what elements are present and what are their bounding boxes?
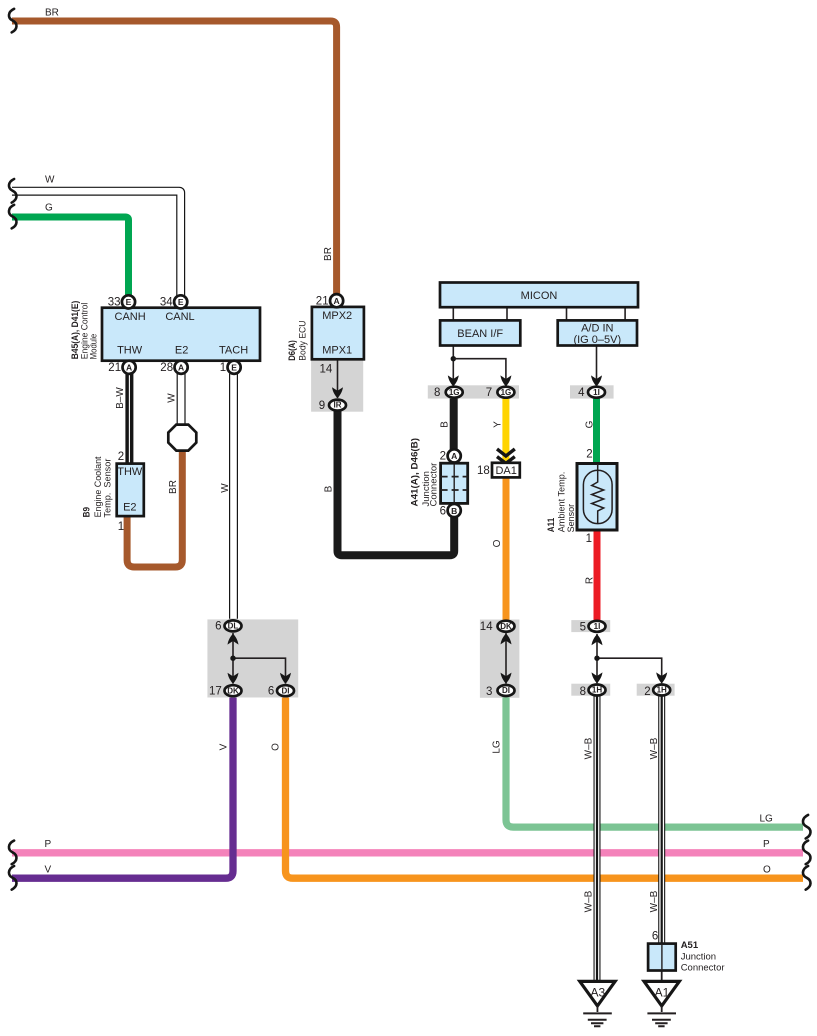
svg-text:A1: A1 bbox=[655, 985, 670, 999]
pin 8(1H) oval bbox=[589, 685, 606, 696]
svg-text:IR: IR bbox=[334, 401, 342, 410]
svg-text:34: 34 bbox=[160, 297, 173, 309]
svg-text:W: W bbox=[45, 174, 55, 185]
shade band pin 8 (1H) bbox=[571, 684, 610, 696]
wire P horizontal bbox=[12, 849, 803, 856]
thermistor capsule inside A11 bbox=[583, 470, 612, 523]
svg-text:W–B: W–B bbox=[583, 737, 594, 759]
junction connector A41 center line bbox=[453, 463, 455, 503]
svg-text:W–B: W–B bbox=[583, 890, 594, 912]
svg-text:1I: 1I bbox=[594, 622, 601, 631]
wire branch to pin 7(1G) bbox=[453, 359, 506, 386]
wire W from pin 28(A): white core bbox=[178, 374, 185, 425]
svg-text:BR: BR bbox=[323, 247, 334, 261]
svg-text:G: G bbox=[45, 202, 53, 213]
svg-text:6: 6 bbox=[652, 931, 658, 943]
pin 2(A) junction connector bbox=[448, 449, 461, 462]
wire W-B left: white core bbox=[595, 697, 600, 983]
svg-text:P: P bbox=[45, 839, 52, 850]
svg-text:Y: Y bbox=[493, 421, 504, 428]
svg-text:O: O bbox=[763, 865, 771, 876]
ground triangle A1 bbox=[644, 981, 679, 1006]
wire B-W white stripe bbox=[128, 374, 130, 464]
shade block DK/DI right bbox=[480, 620, 520, 698]
break squiggle LG right bbox=[803, 815, 811, 839]
svg-text:A: A bbox=[334, 296, 340, 306]
svg-text:6: 6 bbox=[215, 621, 221, 633]
chevron arrows on Y wire into DA1 bbox=[497, 449, 515, 463]
pin 14(DK) oval bbox=[498, 621, 515, 632]
wire LG from pin 3(DI) to right edge bbox=[506, 697, 803, 827]
link MICON to A/D IN left bbox=[566, 307, 568, 321]
box A/D IN (IG 0-5V) bbox=[558, 320, 637, 345]
svg-text:O: O bbox=[271, 743, 282, 751]
svg-text:5: 5 bbox=[580, 622, 586, 634]
svg-text:2: 2 bbox=[644, 686, 650, 698]
box BEAN I/F bbox=[440, 320, 520, 345]
ground A1 bars bbox=[647, 1013, 676, 1026]
wire W-B left: black stripe bbox=[596, 697, 598, 983]
svg-text:DI: DI bbox=[502, 686, 510, 695]
svg-text:THW: THW bbox=[117, 466, 143, 478]
wire W to CANL pin 34(E): outer black bbox=[12, 191, 181, 296]
wire W from pin 28(A) to noise filter: outer black bbox=[177, 374, 186, 425]
svg-text:R: R bbox=[585, 577, 596, 584]
arrow up into 6(DL) bbox=[228, 634, 239, 645]
svg-text:6: 6 bbox=[268, 686, 274, 698]
A51 center divider bbox=[661, 944, 663, 971]
wire B from pin 8(1G) to junction connector 2(A) bbox=[450, 399, 458, 450]
svg-text:DK: DK bbox=[500, 622, 512, 631]
svg-text:DL: DL bbox=[228, 622, 239, 631]
link MICON to A/D IN right bbox=[624, 307, 626, 321]
arrow into 6(DI) bbox=[280, 673, 291, 684]
svg-text:D6(A): D6(A) bbox=[287, 340, 298, 361]
wire W-B right: black stripe bbox=[661, 697, 663, 945]
shade band for pin 4 (1I) bbox=[570, 385, 614, 398]
svg-text:A: A bbox=[126, 363, 132, 373]
svg-text:CANL: CANL bbox=[165, 311, 194, 323]
link MICON to BEAN I/F left bbox=[452, 307, 454, 321]
svg-text:MICON: MICON bbox=[521, 290, 558, 302]
svg-text:B: B bbox=[451, 506, 457, 516]
shade band pin 5 (1I) bbox=[571, 620, 610, 632]
svg-text:18: 18 bbox=[477, 465, 490, 477]
svg-text:LG: LG bbox=[760, 813, 774, 824]
box A11 Ambient Temp. Sensor bbox=[577, 464, 617, 531]
arrow into 2(1H) bbox=[656, 672, 667, 683]
svg-text:2: 2 bbox=[440, 451, 446, 463]
pin 28(A) E2 bbox=[175, 361, 188, 374]
pin 21(A) MPX2 bbox=[330, 294, 343, 307]
svg-text:W: W bbox=[220, 483, 231, 493]
svg-text:1: 1 bbox=[220, 362, 226, 374]
svg-text:DI: DI bbox=[282, 686, 290, 695]
thermistor lead and zigzag bbox=[592, 464, 604, 524]
svg-text:A41(A), D46(B): A41(A), D46(B) bbox=[409, 438, 420, 507]
wire R from ambient temp sensor pin 1 to pin 5(1I) bbox=[594, 530, 601, 621]
junction connector A41(A),D46(B) grid box bbox=[441, 463, 468, 503]
svg-text:6: 6 bbox=[440, 505, 446, 517]
svg-text:E: E bbox=[231, 363, 237, 373]
svg-text:Body ECU: Body ECU bbox=[298, 320, 309, 360]
svg-text:Connector: Connector bbox=[428, 463, 439, 507]
arrow into 17(DK) bbox=[228, 673, 239, 684]
wire G from pin 4(1I) to ambient temp sensor pin 2 bbox=[593, 399, 600, 464]
ground A3 stem bbox=[596, 1006, 598, 1012]
svg-text:Sensor: Sensor bbox=[566, 504, 577, 533]
svg-text:E: E bbox=[178, 297, 184, 307]
link MICON to BEAN I/F right bbox=[506, 307, 508, 321]
svg-text:21: 21 bbox=[108, 362, 121, 374]
pin 34(E) CANL bbox=[174, 295, 187, 308]
svg-text:1G: 1G bbox=[501, 388, 512, 397]
svg-text:BEAN I/F: BEAN I/F bbox=[457, 328, 503, 340]
svg-text:E: E bbox=[126, 297, 132, 307]
wire MPX1 pin 14 to 9(IR) bbox=[337, 359, 339, 398]
node dot on BEAN I/F output bbox=[451, 356, 456, 361]
pin 9(IR) oval bbox=[329, 400, 346, 411]
svg-text:W–B: W–B bbox=[649, 737, 660, 759]
svg-text:THW: THW bbox=[117, 344, 143, 356]
arrow into 7(1G) bbox=[500, 375, 511, 386]
wire W-B right: white core bbox=[659, 697, 664, 945]
svg-text:BR: BR bbox=[45, 7, 59, 18]
wire W-B from pin 2(1H) to junction connector A51: outer black bbox=[658, 697, 665, 945]
pin 21(A) THW bbox=[123, 361, 136, 374]
box A51 Junction Connector bbox=[648, 944, 676, 971]
svg-text:B: B bbox=[324, 485, 335, 492]
svg-text:1H: 1H bbox=[592, 686, 602, 695]
ground A1 stem bbox=[661, 1006, 663, 1012]
pin 8(1G) oval bbox=[446, 387, 463, 398]
svg-text:33: 33 bbox=[108, 297, 121, 309]
svg-text:Temp. Sensor: Temp. Sensor bbox=[103, 459, 114, 518]
ground A3 bars bbox=[583, 1013, 612, 1026]
pin 33(E) CANH bbox=[122, 295, 135, 308]
shade under Body ECU connector area bbox=[311, 359, 363, 411]
pin 7(1G) oval bbox=[497, 387, 514, 398]
svg-text:A/D IN: A/D IN bbox=[581, 323, 613, 335]
pin 4(1I) oval bbox=[588, 387, 605, 398]
wire 5(1I) to 1H pins bbox=[597, 634, 662, 683]
wire B from MPX1 pin 9(IR) to junction connector 2(A) bbox=[338, 410, 455, 555]
arrow up into 14(DK) bbox=[501, 633, 512, 644]
break squiggle V left bbox=[9, 866, 17, 890]
svg-text:E2: E2 bbox=[175, 344, 188, 356]
pin 5(1I) oval bbox=[589, 621, 606, 632]
svg-text:V: V bbox=[45, 865, 52, 876]
wire G to CANH pin 33(E) bbox=[12, 217, 129, 296]
svg-text:17: 17 bbox=[209, 686, 222, 698]
svg-text:1: 1 bbox=[118, 521, 124, 533]
svg-text:G: G bbox=[585, 420, 596, 428]
svg-text:(IG 0–5V): (IG 0–5V) bbox=[573, 334, 621, 346]
wire A/D IN to pin 4(1I) bbox=[596, 346, 598, 387]
arrow into 8(1H) bbox=[592, 672, 603, 683]
svg-text:1: 1 bbox=[586, 533, 592, 545]
svg-text:LG: LG bbox=[492, 740, 503, 754]
ECU box B45(A),D41(E) Engine Control Module bbox=[102, 308, 260, 361]
svg-text:21: 21 bbox=[316, 296, 329, 308]
svg-text:DK: DK bbox=[227, 686, 239, 695]
wire O from DA1 to pin 14(DK) bbox=[503, 478, 510, 620]
wire from A51 to ground A1 bbox=[661, 971, 663, 984]
junction connector A41 dashed dividers bbox=[441, 477, 468, 490]
pin 6(DL) oval bbox=[225, 620, 242, 631]
pin 17(DK) oval bbox=[225, 685, 242, 696]
svg-text:14: 14 bbox=[320, 364, 333, 376]
svg-text:V: V bbox=[219, 743, 230, 750]
svg-text:B: B bbox=[440, 421, 451, 428]
break squiggle O right bbox=[803, 866, 811, 890]
svg-text:1I: 1I bbox=[593, 388, 600, 397]
wire V from pin 17(DK) to left edge bbox=[12, 698, 233, 879]
svg-text:14: 14 bbox=[480, 621, 493, 633]
break squiggle BR left bbox=[9, 9, 17, 33]
svg-text:2: 2 bbox=[586, 449, 592, 461]
pin 1(E) TACH bbox=[228, 361, 241, 374]
wire Y from pin 7(1G) to DA1 bbox=[502, 399, 509, 463]
shade block DL/DK/DI junction bbox=[207, 619, 298, 697]
wire 14(DK) to 3(DI) bbox=[505, 633, 507, 684]
svg-text:A51: A51 bbox=[681, 940, 699, 951]
svg-text:1G: 1G bbox=[449, 388, 460, 397]
svg-text:A11: A11 bbox=[546, 517, 557, 532]
svg-text:Connector: Connector bbox=[681, 962, 725, 973]
wire BR from noise filter to coolant sensor E2 bbox=[127, 450, 182, 567]
svg-text:MPX2: MPX2 bbox=[322, 310, 352, 322]
svg-text:BR: BR bbox=[168, 480, 179, 494]
svg-text:Module: Module bbox=[89, 334, 100, 360]
svg-text:Junction: Junction bbox=[681, 951, 716, 962]
svg-text:9: 9 bbox=[319, 400, 325, 412]
svg-text:W–B: W–B bbox=[649, 890, 660, 912]
wire O from pin 6(DI) to right edge bbox=[286, 698, 804, 879]
svg-text:2: 2 bbox=[118, 451, 124, 463]
shade band for pins 8,7 (1G) bbox=[428, 385, 519, 398]
svg-text:28: 28 bbox=[160, 362, 173, 374]
svg-text:MPX1: MPX1 bbox=[322, 344, 352, 356]
svg-text:A3: A3 bbox=[590, 985, 605, 999]
node dot 1I branch bbox=[594, 656, 599, 661]
box B9 Engine Coolant Temp. Sensor bbox=[117, 464, 144, 516]
arrow into 8(1G) bbox=[448, 375, 459, 386]
break squiggle P left bbox=[9, 841, 17, 865]
pin 2(1H) oval bbox=[653, 685, 670, 696]
shade band pin 2 (1H) bbox=[637, 684, 675, 696]
svg-text:A: A bbox=[178, 363, 184, 373]
box D6(A) Body ECU bbox=[312, 307, 364, 359]
arrow into 4(1I) bbox=[591, 375, 602, 386]
svg-text:8: 8 bbox=[434, 387, 440, 399]
wire W from TACH pin 1(E) to DL: outer black bbox=[229, 374, 238, 619]
svg-text:P: P bbox=[763, 839, 770, 850]
box DA1 bbox=[492, 463, 520, 478]
wire W-B from pin 8(1H) to ground A3: outer black bbox=[594, 697, 601, 983]
svg-text:W: W bbox=[167, 393, 178, 403]
svg-text:CANH: CANH bbox=[115, 311, 146, 323]
svg-text:8: 8 bbox=[580, 686, 586, 698]
box MICON bbox=[440, 283, 638, 308]
svg-text:B–W: B–W bbox=[115, 387, 126, 409]
svg-text:TACH: TACH bbox=[219, 344, 248, 356]
wire BEAN I/F to pin 8(1G) bbox=[452, 346, 454, 387]
wire BR top: left edge to Body ECU pin 21(A) bbox=[12, 21, 337, 296]
wire W from TACH: white core bbox=[230, 374, 237, 619]
svg-text:3: 3 bbox=[486, 686, 492, 698]
svg-text:E2: E2 bbox=[123, 501, 136, 513]
wire DL to DK/DI inside block bbox=[233, 633, 286, 684]
arrow into 9(IR) bbox=[332, 387, 343, 398]
wire B-W from pin 21(A) to coolant sensor THW: black body bbox=[125, 374, 133, 464]
wire W to CANL: white core bbox=[12, 191, 181, 296]
noise filter octagon bbox=[168, 425, 196, 451]
svg-text:7: 7 bbox=[486, 387, 492, 399]
svg-text:B9: B9 bbox=[82, 507, 93, 517]
svg-text:DA1: DA1 bbox=[495, 465, 516, 477]
ground triangle A3 bbox=[580, 981, 615, 1006]
break squiggle P right bbox=[803, 841, 811, 865]
node dot DL block bbox=[230, 656, 235, 661]
arrow into 3(DI) bbox=[501, 673, 512, 684]
break squiggle W left bbox=[9, 179, 17, 203]
arrow up into 5(1I) bbox=[592, 634, 603, 645]
pin 6(DI) oval bbox=[277, 685, 294, 696]
pin 3(DI) oval bbox=[498, 685, 515, 696]
svg-text:O: O bbox=[492, 539, 503, 547]
svg-text:4: 4 bbox=[578, 387, 585, 399]
svg-text:A: A bbox=[451, 451, 457, 461]
svg-text:1H: 1H bbox=[657, 686, 667, 695]
break squiggle G left bbox=[9, 205, 17, 229]
pin 6(B) junction connector bbox=[448, 504, 461, 517]
